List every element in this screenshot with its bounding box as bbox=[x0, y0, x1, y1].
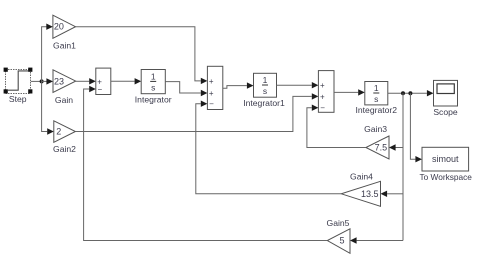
wire Sum3 output to Integrator2 bbox=[334, 91, 358, 93]
svg-text:+: + bbox=[320, 92, 325, 101]
wire branch down to Gain2 bbox=[42, 81, 48, 131]
svg-text:Gain5: Gain5 bbox=[327, 218, 350, 228]
svg-text:Scope: Scope bbox=[433, 107, 458, 117]
junction dot simout branch bbox=[408, 91, 412, 95]
integrator block Integrator2 1/s bbox=[365, 82, 388, 105]
scope block Scope bbox=[434, 80, 458, 106]
svg-text:s: s bbox=[374, 94, 378, 104]
svg-text:+: + bbox=[320, 81, 325, 90]
wire Sum2 output to Integrator1 bbox=[223, 86, 247, 89]
gain block Gain value 23 bbox=[53, 70, 76, 93]
svg-text:Gain2: Gain2 bbox=[53, 144, 76, 154]
svg-text:Step: Step bbox=[9, 94, 27, 104]
wire Integrator2 output to Scope bbox=[388, 92, 427, 94]
svg-text:To Workspace: To Workspace bbox=[419, 172, 472, 182]
svg-text:7.5: 7.5 bbox=[375, 143, 388, 153]
to-workspace block simout bbox=[422, 147, 469, 171]
wire Sum1 output to Integrator bbox=[111, 80, 135, 82]
gain block Gain2 value 2 bbox=[54, 121, 76, 143]
svg-text:simout: simout bbox=[432, 154, 459, 164]
gain block Gain4 value 13.5 (points left) bbox=[341, 181, 380, 206]
wire tap to Gain5 input bbox=[357, 240, 403, 242]
wire tap to Gain4 input bbox=[387, 193, 403, 195]
step source block Step bbox=[4, 68, 33, 94]
svg-text:23: 23 bbox=[54, 76, 64, 86]
wire Integrator output to Sum2 second input bbox=[165, 82, 201, 93]
wire tap to Gain3 input bbox=[396, 147, 404, 149]
wire Integrator1 output to Sum3 first input bbox=[277, 84, 312, 86]
gain block Gain1 value 20 bbox=[53, 15, 76, 38]
wire Gain output to Sum1 bbox=[76, 80, 90, 82]
svg-text:−: − bbox=[320, 104, 325, 113]
integrator block Integrator1 1/s bbox=[254, 73, 277, 97]
svg-text:s: s bbox=[263, 86, 267, 96]
wire Gain2 output to Sum3 second input bbox=[75, 96, 311, 131]
svg-text:Integrator1: Integrator1 bbox=[243, 98, 285, 108]
svg-text:Gain3: Gain3 bbox=[364, 124, 387, 134]
gain block Gain3 value 7.5 (points left) bbox=[366, 136, 389, 159]
wire feedback trunk down from Integrator2 output bbox=[402, 93, 404, 240]
wire Gain3 output to Sum3 minus input bbox=[307, 108, 366, 148]
wire branch up to Gain1 bbox=[42, 27, 47, 82]
svg-text:Integrator2: Integrator2 bbox=[356, 105, 398, 115]
svg-text:1: 1 bbox=[374, 83, 379, 93]
sum block Sum3 bbox=[318, 71, 334, 113]
svg-text:1: 1 bbox=[151, 72, 156, 82]
svg-text:13.5: 13.5 bbox=[361, 189, 379, 199]
svg-text:1: 1 bbox=[263, 75, 268, 85]
junction dot feedback branch bbox=[401, 91, 405, 95]
svg-text:Gain: Gain bbox=[55, 95, 73, 105]
svg-text:−: − bbox=[98, 85, 103, 94]
svg-text:20: 20 bbox=[54, 22, 64, 32]
svg-text:Gain4: Gain4 bbox=[350, 172, 373, 182]
svg-text:2: 2 bbox=[56, 127, 61, 137]
svg-text:Gain1: Gain1 bbox=[53, 40, 76, 50]
wire Step output to junction bbox=[31, 80, 42, 82]
svg-text:s: s bbox=[151, 83, 155, 93]
sum block Sum1 bbox=[96, 68, 111, 94]
integrator block Integrator 1/s bbox=[141, 70, 165, 94]
wire Gain4 output to Sum2 minus input bbox=[196, 104, 341, 194]
junction dot at Step branch bbox=[40, 79, 44, 83]
wire Gain5 output to Sum1 minus input bbox=[84, 89, 328, 241]
svg-text:Integrator: Integrator bbox=[135, 94, 172, 104]
wire branch to Gain bbox=[42, 80, 47, 82]
svg-text:5: 5 bbox=[340, 236, 345, 246]
svg-text:+: + bbox=[209, 77, 214, 86]
svg-text:−: − bbox=[209, 100, 214, 109]
sum block Sum2 bbox=[207, 66, 222, 109]
wire Gain1 output to Sum2 first input bbox=[76, 27, 201, 81]
gain block Gain5 value 5 (points left) bbox=[327, 229, 350, 254]
wire branch to To Workspace simout bbox=[410, 93, 415, 159]
svg-text:+: + bbox=[209, 89, 214, 98]
